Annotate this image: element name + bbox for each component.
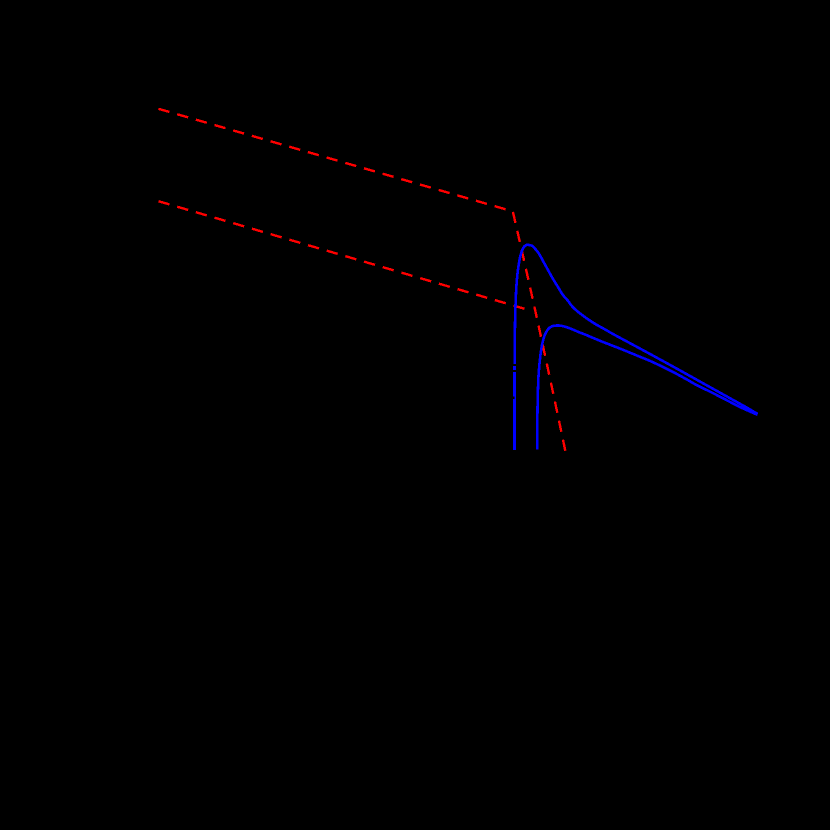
red dashed model line upper (broken power law) — [159, 109, 566, 451]
tiny sampling gaps on curve 1 rise — [513, 364, 517, 366]
red dashed model line lower — [159, 201, 525, 309]
blue light curve 1 (early peak) — [514, 245, 757, 450]
blue light curve 2 (later peak) — [537, 325, 757, 449]
tiny step on curve 2 rise — [538, 415, 539, 450]
